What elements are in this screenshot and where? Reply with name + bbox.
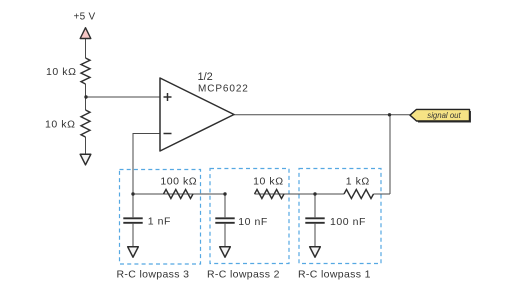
svg-text:R-C lowpass 1: R-C lowpass 1 bbox=[298, 268, 371, 280]
svg-text:+5 V: +5 V bbox=[73, 12, 95, 23]
svg-text:1 kΩ: 1 kΩ bbox=[346, 175, 370, 187]
svg-text:10 kΩ: 10 kΩ bbox=[46, 66, 76, 78]
svg-text:10 nF: 10 nF bbox=[238, 216, 268, 228]
svg-text:100 nF: 100 nF bbox=[330, 216, 366, 228]
svg-text:1/2: 1/2 bbox=[198, 71, 213, 83]
svg-text:1 nF: 1 nF bbox=[148, 216, 171, 228]
svg-text:signal out: signal out bbox=[427, 111, 461, 120]
svg-text:MCP6022: MCP6022 bbox=[198, 84, 249, 95]
svg-text:R-C lowpass 2: R-C lowpass 2 bbox=[207, 268, 280, 280]
svg-text:10 kΩ: 10 kΩ bbox=[45, 119, 75, 131]
svg-text:10 kΩ: 10 kΩ bbox=[253, 175, 283, 187]
svg-text:R-C lowpass 3: R-C lowpass 3 bbox=[117, 268, 190, 280]
svg-text:100 kΩ: 100 kΩ bbox=[160, 175, 197, 187]
